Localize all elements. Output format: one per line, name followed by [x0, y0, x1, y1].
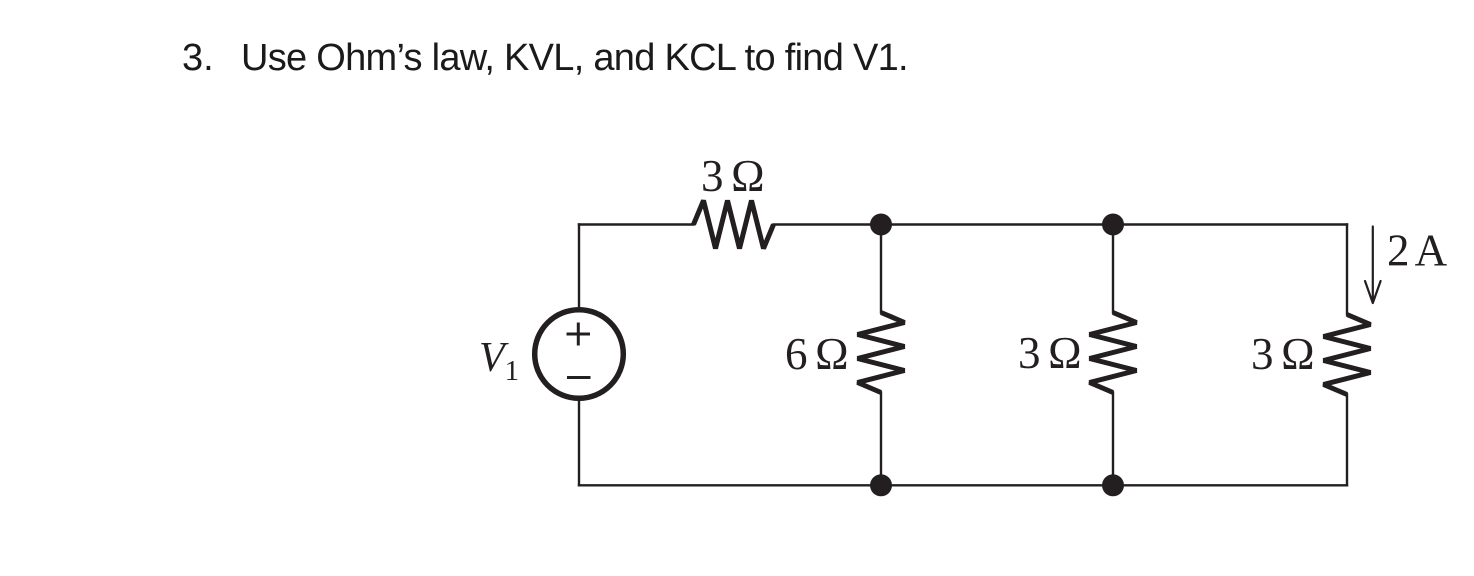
wire: left vertical from top corner down to voltage source: [578, 225, 580, 310]
svg-text:3.: 3.: [182, 37, 214, 79]
node A junction dot (top): [870, 214, 892, 236]
svg-text:6 Ω: 6 Ω: [785, 329, 847, 379]
resistor 6 ohm vertical (branch 1): [858, 313, 905, 393]
voltage source V1 circle: [535, 310, 624, 399]
bottom junction dot (under node B): [1102, 474, 1124, 496]
svg-text:3 Ω: 3 Ω: [701, 151, 763, 201]
minus sign inside source: [567, 376, 591, 379]
wire: branch 1 vertical from node A down to 6 ohm resistor: [880, 225, 882, 313]
wire: bottom horizontal from bottom node B to right corner: [1113, 484, 1347, 486]
bottom junction dot (under node A): [870, 474, 892, 496]
svg-text:2 A: 2 A: [1387, 226, 1448, 276]
wire: branch 2 vertical from node B down to middle 3 ohm resistor: [1112, 225, 1114, 313]
wire: top horizontal from node B to right corner: [1113, 223, 1347, 225]
svg-text:Use Ohm’s law, KVL, and KCL to: Use Ohm’s law, KVL, and KCL to find V1.: [241, 37, 908, 79]
resistor 3 ohm vertical (middle branch): [1090, 313, 1137, 393]
wire: branch 2 vertical from middle resistor down to bottom node: [1112, 393, 1114, 486]
svg-text:3 Ω: 3 Ω: [1251, 329, 1313, 379]
wire: left vertical from voltage source down to bottom corner: [578, 399, 580, 485]
svg-text:V1: V1: [479, 335, 519, 387]
resistor 3 ohm vertical (right branch): [1324, 315, 1371, 395]
wire: top horizontal from R1 to node A: [774, 223, 882, 225]
current arrow 2 A (pointing down): [1365, 227, 1381, 304]
resistor 3 ohm horizontal (top): [694, 201, 774, 249]
wire: bottom horizontal from left corner to bottom node A: [579, 484, 881, 486]
wire: right vertical from top-right corner down to right 3 ohm resistor: [1346, 225, 1348, 315]
wire: branch 1 vertical from 6 ohm resistor down to bottom node: [880, 393, 882, 486]
svg-text:3 Ω: 3 Ω: [1018, 328, 1080, 378]
wire: top horizontal from node A to node B: [881, 223, 1113, 225]
wire: top-left horizontal from source branch to resistor R1: [579, 223, 694, 225]
node B junction dot (top): [1102, 214, 1124, 236]
wire: right vertical from right resistor down to bottom-right corner: [1346, 395, 1348, 486]
wire: bottom horizontal from bottom node A to bottom node B: [881, 484, 1113, 486]
plus sign inside source: [567, 323, 591, 346]
